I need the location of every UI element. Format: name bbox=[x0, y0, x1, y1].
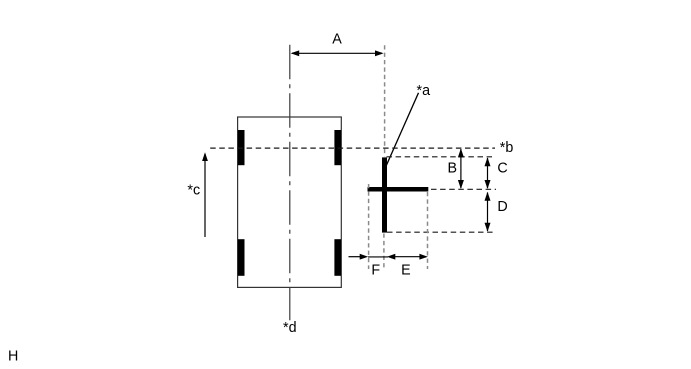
dimension B arrow bbox=[458, 148, 464, 189]
vehicle centerline (dash-dot) bbox=[289, 45, 291, 320]
extension line A (gray dashed vertical) bbox=[384, 45, 386, 156]
dimension E arrow bbox=[387, 254, 428, 260]
svg-text:F: F bbox=[371, 262, 380, 278]
svg-text:*b: *b bbox=[500, 140, 514, 156]
tire front-left bbox=[238, 130, 245, 165]
gray dashed vertical at cross-left bbox=[368, 184, 370, 269]
tire rear-left bbox=[238, 239, 245, 276]
svg-text:H: H bbox=[8, 349, 18, 365]
arrow *c bbox=[202, 152, 208, 237]
leader line *a bbox=[386, 93, 419, 166]
dimension A arrow bbox=[291, 50, 384, 56]
extension dashed line cross-bottom bbox=[387, 231, 495, 233]
dimension C arrow bbox=[485, 157, 491, 189]
car body outline bbox=[238, 117, 342, 287]
gray dashed vertical at cross-right bbox=[427, 192, 429, 269]
svg-text:E: E bbox=[401, 262, 411, 278]
datum dashed line *b bbox=[210, 147, 495, 149]
svg-text:A: A bbox=[332, 31, 342, 47]
svg-text:D: D bbox=[497, 199, 507, 215]
svg-text:B: B bbox=[448, 160, 458, 176]
svg-text:*d: *d bbox=[283, 320, 297, 336]
svg-text:*a: *a bbox=[417, 83, 431, 99]
extension dashed line cross-center bbox=[431, 188, 496, 190]
dimension F arrow (outside pointer) bbox=[349, 254, 389, 260]
target cross vertical bar bbox=[382, 157, 387, 232]
dimension D arrow bbox=[485, 192, 491, 232]
extension dashed line cross-top bbox=[387, 156, 493, 158]
tire rear-right bbox=[334, 239, 341, 276]
svg-text:C: C bbox=[497, 160, 507, 176]
target cross horizontal bar bbox=[368, 187, 429, 192]
svg-text:*c: *c bbox=[187, 182, 200, 198]
gray dashed vertical at cross-axis bbox=[383, 234, 385, 270]
tire front-right bbox=[334, 130, 341, 165]
